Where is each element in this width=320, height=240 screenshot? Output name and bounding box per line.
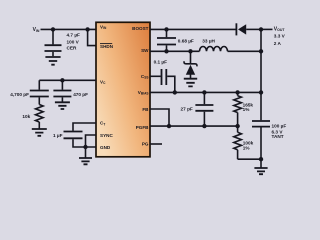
- svg-text:FB: FB: [142, 107, 149, 112]
- node junction VBIAS/165k: [235, 90, 239, 94]
- diode D2 anode lead: [190, 75, 192, 79]
- diode D2 catch schottky lead: [190, 51, 192, 64]
- ground output lead: [260, 159, 262, 167]
- ground under C3: [55, 102, 70, 109]
- pin VIN label: [100, 25, 107, 31]
- svg-text:470 pF: 470 pF: [73, 92, 88, 97]
- svg-text:33 µH: 33 µH: [202, 39, 215, 44]
- ground under SYNC/GND lead: [85, 147, 87, 158]
- wire SYNC to ground: [86, 135, 97, 147]
- resistor R2 165k lead: [237, 92, 239, 95]
- capacitor C2 4700pF plates: [30, 91, 49, 97]
- svg-text:10k: 10k: [22, 114, 30, 119]
- svg-text:0.1 µF: 0.1 µF: [154, 59, 168, 64]
- capacitor C3 470pF lead: [61, 80, 63, 89]
- svg-text:GND: GND: [100, 145, 111, 150]
- svg-text:2 A: 2 A: [274, 41, 282, 46]
- node junction FB/PGFB: [167, 124, 171, 128]
- resistor R2 bottom lead: [237, 113, 239, 127]
- svg-text:CT: CT: [100, 121, 105, 127]
- ground under D2: [184, 79, 197, 87]
- node VIN input label: [33, 27, 40, 33]
- ground symbol SYNC/GND: [79, 158, 92, 164]
- node junction VBIAS/27pF: [202, 90, 206, 94]
- label 0.1uF: [154, 59, 168, 64]
- resistor R2 165k zigzag: [234, 96, 242, 113]
- node junction VC/470pF: [60, 78, 64, 82]
- wire SHDN tie to VIN: [88, 29, 96, 45]
- svg-text:VC: VC: [100, 79, 106, 85]
- node junction SW/C5: [164, 49, 168, 53]
- capacitor C7 100uF plates: [252, 121, 270, 127]
- node junction PGFB/27pF: [202, 124, 206, 128]
- diode D1 anode wire: [246, 28, 261, 30]
- capacitor C3 bottom lead: [61, 97, 63, 101]
- label 33uH: [202, 39, 215, 44]
- capacitor C1 bottom lead: [52, 52, 54, 56]
- capacitor C5 0.68uF plates: [157, 38, 176, 45]
- capacitor C1 4.7uF lead: [52, 29, 54, 44]
- pin VC label: [100, 79, 106, 85]
- ground under C1: [45, 57, 60, 65]
- ground under R1: [32, 129, 47, 136]
- svg-text:VIN: VIN: [33, 27, 40, 33]
- resistor R3 100k lead: [237, 126, 239, 132]
- svg-text:100 µF: 100 µF: [272, 123, 287, 128]
- resistor R1 10k zigzag: [36, 105, 44, 123]
- pin CSS label: [141, 74, 149, 80]
- wire VOUT vertical lower: [260, 128, 262, 160]
- wire BOOST line: [150, 28, 236, 30]
- svg-text:SHDN: SHDN: [100, 44, 114, 49]
- pin SYNC label: [100, 133, 113, 138]
- label 100k 1%: [243, 141, 254, 151]
- label VOUT 3.3V 2A: [274, 26, 286, 46]
- node junction VOUT/L1: [259, 49, 263, 53]
- diode D1 boost triangle: [238, 24, 246, 34]
- wire VC to network: [39, 79, 96, 81]
- svg-text:CSS: CSS: [141, 74, 149, 80]
- pin PG label: [142, 142, 149, 147]
- pin SHDN overline: [100, 43, 112, 45]
- svg-text:VBIAS: VBIAS: [138, 90, 149, 96]
- capacitor C8 27pF plates: [195, 105, 213, 111]
- wire VOUT vertical upper: [260, 29, 262, 120]
- pin FB label: [142, 107, 149, 112]
- capacitor C5 0.68uF lead: [166, 29, 168, 37]
- resistor R3 100k zigzag: [234, 132, 242, 149]
- capacitor C5 bottom lead: [166, 45, 168, 51]
- resistor R1 10k lead: [38, 97, 40, 104]
- node junction FB divider: [235, 124, 239, 128]
- svg-text:27 pF: 27 pF: [181, 106, 193, 111]
- label 470pF: [73, 92, 88, 97]
- svg-text:4,700 pF: 4,700 pF: [10, 92, 29, 97]
- capacitor C6 0.1uF plates: [162, 69, 167, 85]
- capacitor C8 27pF lead: [203, 92, 205, 104]
- node junction SW/D2: [188, 49, 192, 53]
- svg-text:SW: SW: [141, 48, 149, 53]
- label 165k 1%: [243, 102, 254, 112]
- svg-text:VOUT: VOUT: [274, 26, 286, 32]
- wire FB pin: [150, 109, 169, 126]
- svg-text:3.3 V: 3.3 V: [274, 34, 286, 39]
- wire CSS pin to cap: [150, 75, 161, 77]
- svg-text:VIN: VIN: [100, 25, 107, 31]
- wire VIN to IC: [41, 28, 97, 30]
- node junction SYNC/GND: [83, 145, 87, 149]
- label 100uF 6.3V TANT: [272, 123, 287, 138]
- diode D1 boost cathode bar: [235, 23, 237, 35]
- capacitor C1 4.7uF plates: [45, 45, 62, 51]
- label 27pF: [181, 106, 193, 111]
- svg-text:100 V: 100 V: [67, 39, 80, 44]
- capacitor C3 470pF plates: [53, 91, 71, 97]
- node junction VIN/C1: [51, 27, 55, 31]
- label 4700pF: [10, 92, 29, 97]
- node junction VOUT/VBIAS: [259, 90, 263, 94]
- pin PGFB label: [136, 125, 149, 130]
- diode D2 triangle: [186, 65, 195, 75]
- svg-text:PG: PG: [142, 142, 149, 147]
- node junction BOOST/C5: [164, 27, 168, 31]
- wire divider to output ground: [238, 158, 261, 160]
- resistor R1 bottom lead: [38, 122, 40, 129]
- capacitor C4 1uF plates: [64, 132, 83, 139]
- svg-text:BOOST: BOOST: [132, 26, 149, 31]
- ground symbol output: [254, 168, 267, 174]
- wire PGFB line: [150, 125, 238, 127]
- wire SW line right: [228, 50, 262, 52]
- label 1uF: [53, 133, 63, 138]
- pin BOOST label: [132, 26, 149, 31]
- wire VOUT stub: [261, 28, 273, 30]
- svg-text:SYNC: SYNC: [100, 133, 113, 138]
- node junction VBIAS/C6: [173, 90, 177, 94]
- svg-text:PGFB: PGFB: [136, 125, 149, 130]
- svg-text:TANT: TANT: [272, 134, 284, 139]
- pin GND label: [100, 145, 111, 150]
- wire VBIAS line: [150, 91, 261, 93]
- resistor R3 bottom lead: [237, 150, 239, 159]
- svg-text:4.7 µF: 4.7 µF: [67, 33, 81, 38]
- pin CT label: [100, 121, 105, 127]
- svg-text:1%: 1%: [243, 107, 251, 112]
- node junction VIN/SHDN: [85, 27, 89, 31]
- svg-text:CER: CER: [67, 45, 78, 50]
- svg-text:1 µF: 1 µF: [53, 133, 63, 138]
- node VOUT: [259, 27, 263, 31]
- wire C6 to VBIAS line: [167, 76, 175, 92]
- node junction output ground: [259, 157, 263, 161]
- pin VBIAS label: [138, 90, 149, 96]
- wire PG stub: [150, 143, 162, 145]
- inductor L1 33uH: [200, 47, 228, 52]
- diode D2 schottky cathode bar: [184, 61, 197, 66]
- capacitor C8 bottom lead: [203, 112, 205, 126]
- svg-text:1%: 1%: [243, 146, 251, 151]
- pin SW label: [141, 48, 149, 53]
- wire CT pin to 1uF: [73, 123, 96, 131]
- capacitor C2 4700pF lead: [38, 80, 40, 89]
- op-amp U1 regulator IC body: [96, 22, 150, 157]
- svg-text:0.68 µF: 0.68 µF: [178, 39, 194, 44]
- label 0.68uF: [178, 39, 194, 44]
- pin SHDN label: [100, 44, 114, 49]
- wire C4 bottom to GND pin: [73, 139, 96, 147]
- label 10k: [22, 114, 30, 119]
- label 4.7uF 100V CER: [67, 33, 81, 51]
- wire SW line left: [150, 50, 200, 52]
